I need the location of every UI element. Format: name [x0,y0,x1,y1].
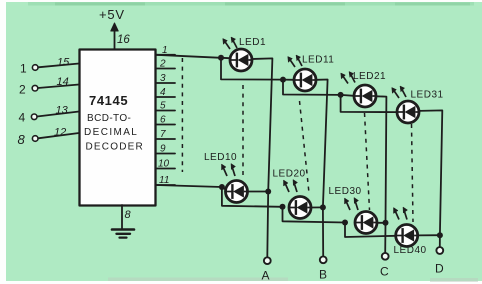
svg-text:14: 14 [57,76,69,88]
LED21 [354,85,376,107]
LED21 anode wire [341,94,354,97]
input terminal 1 wire [38,64,79,68]
svg-text:LED21: LED21 [353,71,386,82]
input terminal 1 circle [32,65,38,71]
input terminal 2 wire [38,85,79,89]
LED10 cathode wire [248,191,268,193]
bottom edge [0,281,482,284]
LED11 anode wire [283,79,294,81]
arrows LED20 [284,180,298,193]
svg-text:LED31: LED31 [411,90,444,101]
svg-text:16: 16 [117,34,130,46]
svg-text:LED20: LED20 [273,169,306,180]
dashed column LED12-LED19 [300,101,310,193]
svg-text:10: 10 [158,159,170,170]
arrows LED11 [288,55,302,67]
output pin stubs pins 1-11 [156,54,175,56]
svg-text:74145: 74145 [89,93,128,108]
svg-text:9: 9 [160,144,166,155]
wire pin11 to LED10 anode [156,185,222,187]
svg-text:+5V: +5V [99,7,125,22]
svg-text:1: 1 [162,45,168,56]
input terminal 4 wire [37,112,79,117]
LED20 cathode wire [312,206,323,208]
svg-text:DECIMAL: DECIMAL [84,127,138,138]
node LED40 cathode column D [437,232,443,238]
LED30 [355,212,377,234]
wire pin1 to LED1 anode [156,55,221,58]
arrows LED40 [394,207,408,220]
LED20 [289,197,311,219]
input terminal 8 circle [32,136,38,142]
LED40 [396,225,418,247]
input terminal 4 circle [31,114,37,120]
svg-text:DECODER: DECODER [86,142,144,153]
LED31 cathode wire / column D [419,110,442,247]
svg-text:LED40: LED40 [394,245,427,256]
terminal circles [264,247,443,264]
svg-text:13: 13 [56,105,69,117]
svg-text:8: 8 [125,209,132,221]
ground symbol [112,228,134,231]
LED10 [226,181,248,203]
svg-text:LED10: LED10 [204,152,237,163]
svg-text:A: A [262,269,270,283]
node pin1/LED1 anode [218,55,224,61]
input terminal 2 circle [32,85,38,91]
right pin numbers [158,45,170,186]
node LED30 anode [342,220,348,226]
svg-text:1: 1 [20,62,27,76]
LED symbols [226,49,420,247]
node LED20 cathode column B [320,204,326,210]
terminal B [320,256,327,263]
+5V supply wire pin 16 [114,28,116,49]
LED21 cathode wire / column C [377,96,387,253]
terminal D [436,247,443,254]
row 1 anode bus staircase [221,58,283,80]
top edge smudge [28,2,474,6]
LED1 anode wire [221,57,230,59]
ground pin 8 wire [121,205,123,229]
svg-text:8: 8 [18,132,26,147]
input terminal 8 wire [38,133,79,138]
svg-text:5: 5 [160,101,166,112]
node LED20 anode [280,204,286,210]
svg-text:LED11: LED11 [302,55,334,66]
svg-text:3: 3 [160,73,166,84]
node LED21 anode [338,92,344,98]
dashed continuation lines [182,58,413,222]
node pin11/LED10 anode [219,184,225,190]
svg-text:15: 15 [57,57,70,69]
svg-text:4: 4 [19,111,26,125]
arrows LED10 [222,164,236,177]
arrows LED31 [392,86,406,98]
svg-text:7: 7 [160,129,166,140]
node LED30 cathode column C [383,220,389,226]
arrows LED21 [341,72,355,84]
svg-text:LED30: LED30 [329,186,362,197]
svg-text:BCD-TO-: BCD-TO- [87,113,131,124]
dashed column LED2-LED9 [242,85,244,176]
svg-text:11: 11 [159,175,169,186]
LED11 cathode wire / column B [316,80,327,257]
node LED10 cathode column A [265,189,271,195]
terminal A [264,257,271,264]
LED1 cathode wire / column A [252,58,272,257]
arrows LED30 [345,198,359,211]
LED11 [294,69,316,91]
row 10 anode bus staircase [222,187,283,207]
svg-text:C: C [380,265,389,279]
terminal C [382,253,389,260]
LED1 [230,49,252,71]
LED emission arrows [222,37,408,220]
svg-text:2: 2 [19,83,26,97]
IC U1 74145 box [80,50,156,206]
svg-text:4: 4 [160,87,166,98]
svg-text:LED1: LED1 [239,37,266,48]
svg-text:12: 12 [54,127,66,139]
arrows LED1 [223,37,237,49]
svg-text:2: 2 [159,59,166,70]
svg-text:D: D [435,262,444,276]
LED31 [397,101,419,123]
LED30 cathode wire [377,222,386,224]
LED40 cathode wire [418,234,440,236]
dashed bus rows 2-9 [181,58,183,172]
node LED11 anode [280,77,286,83]
svg-text:B: B [319,268,327,282]
dashed column LED32-LED39 [412,124,414,222]
svg-text:6: 6 [160,115,166,126]
dashed column LED22-LED29 [365,113,370,210]
